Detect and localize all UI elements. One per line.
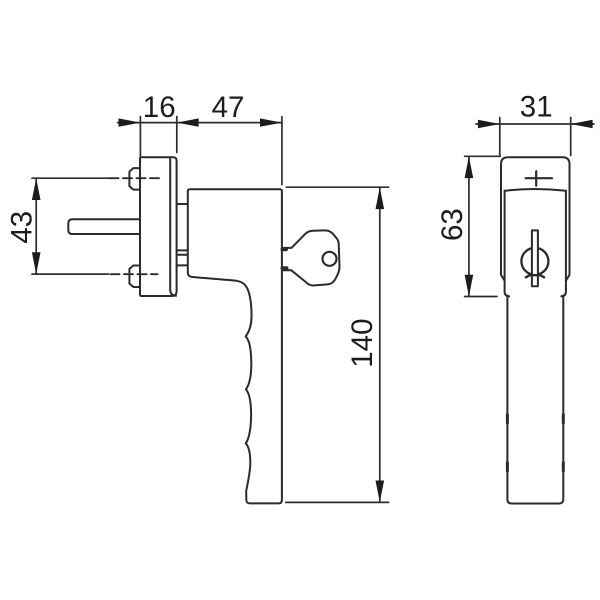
dimension line 16/47	[118, 122, 282, 124]
dimension line 31	[476, 123, 594, 125]
arrowhead 16 left (outside, pointing right)	[119, 118, 141, 126]
front view: rosette inner right edge	[561, 191, 566, 296]
arrowhead 140 bottom (pointing down)	[376, 481, 385, 503]
svg-text:47: 47	[212, 91, 245, 124]
svg-text:16: 16	[143, 91, 176, 124]
handle body and grip outline (side view)	[188, 189, 282, 503]
extension line 140 top	[286, 186, 388, 188]
screw boss bottom	[129, 266, 140, 288]
arrowhead 63 top (pointing up)	[465, 156, 474, 178]
key bow hole	[323, 252, 337, 266]
neck groove line 2	[177, 254, 188, 256]
neck ring line bottom	[177, 264, 188, 266]
neck ring line top	[177, 203, 188, 205]
arrowhead 63 bottom (pointing down)	[465, 275, 474, 297]
lever edge ridge nubs (front view)	[507, 415, 563, 472]
plate inner face line	[170, 158, 176, 296]
svg-text:140: 140	[346, 318, 379, 367]
front view: rosette right chamfer	[566, 275, 570, 281]
extension line 43 top	[32, 177, 109, 179]
dimension line 140	[379, 187, 381, 502]
arrowhead 31 left (outside, pointing right)	[478, 120, 500, 128]
svg-text:63: 63	[436, 208, 469, 241]
front view: rosette outer outline	[501, 157, 570, 275]
front view: rosette left chamfer	[501, 275, 505, 281]
plus mark on rosette	[526, 171, 552, 185]
arrowhead 140 top (pointing up)	[376, 187, 385, 209]
extension line at body front	[281, 117, 283, 185]
key (side view)	[283, 230, 340, 285]
arrowhead 31 right (outside, pointing left)	[571, 120, 593, 128]
extension line 63 top	[465, 155, 501, 157]
arrowhead 47 right (pointing right)	[260, 118, 282, 126]
arrowhead 47 left (pointing left)	[177, 118, 199, 126]
front view: lever outline	[507, 296, 563, 504]
key slot (front view)	[532, 230, 538, 286]
dimension line 43	[35, 178, 37, 274]
spindle shaft	[68, 219, 140, 234]
arrowhead 43 bottom (pointing down)	[32, 252, 41, 274]
rosette plate (side view)	[140, 157, 177, 296]
extension line 43 bottom	[32, 273, 109, 275]
key bit marks at lock entry	[283, 249, 287, 268]
svg-text:31: 31	[520, 91, 553, 124]
front view: rosette inner left edge	[505, 191, 510, 296]
extension line 140 bottom	[286, 501, 389, 503]
extension line 31 right	[570, 118, 572, 156]
key crossbar (front view)	[526, 275, 544, 277]
svg-text:43: 43	[5, 211, 38, 244]
screw centerline top (dash-dot)	[110, 177, 160, 179]
screw boss top	[129, 168, 140, 190]
extension line at plate right	[176, 117, 178, 153]
neck groove line 1	[177, 249, 188, 251]
arrowhead 43 top (pointing up)	[32, 178, 41, 200]
extension line at plate left	[139, 117, 141, 156]
extension line 63 bottom	[465, 296, 497, 298]
key cylinder circle	[521, 248, 548, 275]
dimension line 63	[468, 156, 470, 296]
extension line 31 left	[499, 118, 501, 156]
front view: rosette face top arc	[505, 189, 566, 191]
screw centerline bottom (dash-dot)	[111, 273, 158, 275]
